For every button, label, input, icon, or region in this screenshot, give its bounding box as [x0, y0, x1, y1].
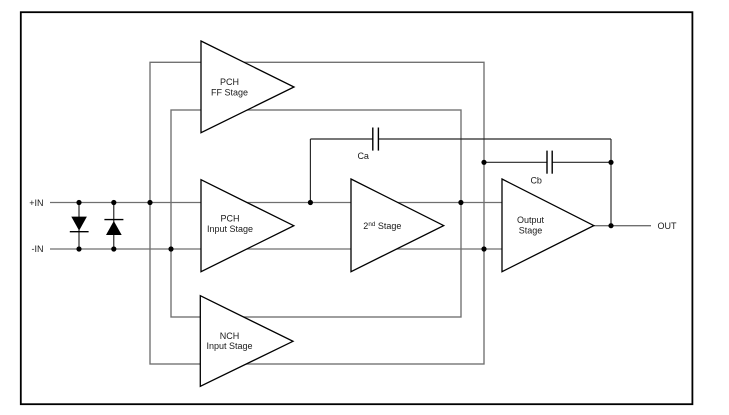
svg-text:Output: Output: [517, 215, 545, 225]
svg-text:-IN: -IN: [32, 244, 44, 254]
junction -IN/box2 left edge: [168, 246, 173, 251]
wire Cb segment right: [552, 161, 611, 163]
svg-text:Input Stage: Input Stage: [206, 341, 252, 351]
svg-text:Ca: Ca: [357, 151, 369, 161]
svg-text:Input Stage: Input Stage: [207, 224, 253, 234]
wire loop rectangle (inner feed-forward net, node box2): [171, 110, 461, 317]
capacitor Ca: [372, 128, 374, 151]
junction box2 right edge on +IN rail: [458, 200, 463, 205]
junction +IN/diode D2: [111, 200, 116, 205]
op-amp PCH FF Stage: [201, 41, 294, 133]
wire +IN rail: [50, 202, 502, 204]
wire Cb segment left: [484, 161, 547, 163]
op-amp NCH Input Stage: [200, 296, 293, 387]
junction OUT node: [608, 223, 613, 228]
wire -IN rail: [50, 248, 502, 250]
wire OUT lead: [594, 225, 652, 227]
junction box1 right edge on -IN rail: [481, 246, 486, 251]
op-amp PCH Input Stage: [201, 180, 294, 272]
junction -IN/diode D2: [111, 246, 116, 251]
wire right vertical to OUT node: [610, 139, 612, 226]
op-amp Output Stage: [502, 179, 594, 272]
junction -IN/diode D1: [76, 246, 81, 251]
wire loop rectangle (outer feed-forward net, node box1): [150, 62, 484, 364]
junction +IN/diode D1: [76, 200, 81, 205]
svg-text:PCH: PCH: [220, 214, 239, 224]
capacitor Cb: [546, 151, 548, 174]
svg-text:Cb: Cb: [530, 175, 542, 185]
wire Ca drop to +IN rail: [309, 139, 311, 203]
diode D1 (anode on +IN, cathode down): [78, 203, 80, 250]
junction Cb left on box1 right edge: [481, 160, 486, 165]
junction Cb right on OUT vertical: [608, 160, 613, 165]
svg-text:+IN: +IN: [29, 198, 43, 208]
svg-text:PCH: PCH: [220, 77, 239, 87]
svg-text:Stage: Stage: [519, 226, 543, 236]
wire Ca top segment right: [378, 138, 611, 140]
svg-text:OUT: OUT: [658, 221, 678, 231]
svg-text:NCH: NCH: [220, 331, 240, 341]
svg-text:FF Stage: FF Stage: [211, 87, 248, 97]
wire Ca top segment left: [310, 138, 372, 140]
op-amp 2nd Stage: [351, 179, 444, 272]
junction +IN/box1 left edge: [147, 200, 152, 205]
diode D2 (cathode up, anode on -IN): [113, 203, 115, 250]
junction Ca drop on +IN rail: [308, 200, 313, 205]
